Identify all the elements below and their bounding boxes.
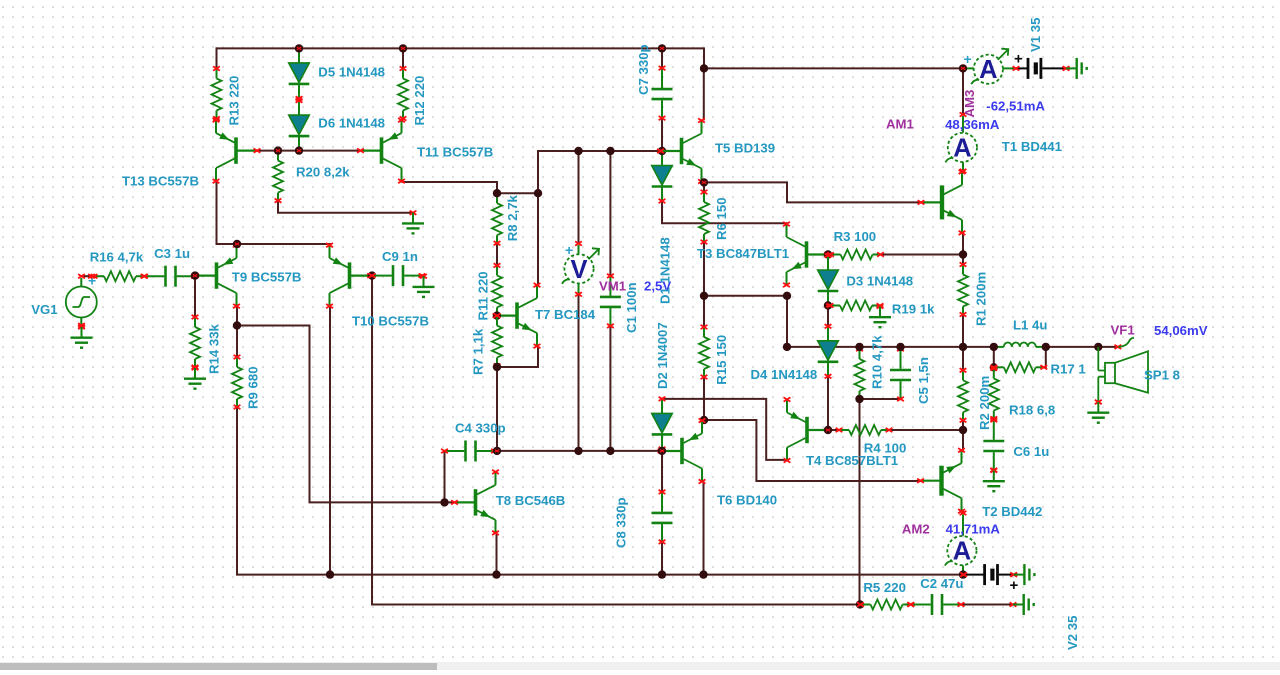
wire T6 collector down xyxy=(703,482,705,575)
wire R9 bottom to -rail bus xyxy=(237,407,963,575)
resistor R8 xyxy=(492,191,502,245)
label C5 xyxy=(916,357,931,404)
junction R5 node xyxy=(856,600,864,608)
svg-text:C3 1u: C3 1u xyxy=(154,246,190,261)
label R1 xyxy=(974,272,989,326)
wire C7 top lead xyxy=(661,48,663,68)
wire C1 bottom to C4 bus xyxy=(609,326,611,451)
label C9 xyxy=(382,249,418,264)
svg-text:-62,51mA: -62,51mA xyxy=(986,99,1045,114)
svg-text:R9 680: R9 680 xyxy=(246,366,261,409)
junction top bus R12 xyxy=(399,44,407,52)
label VF1 xyxy=(1111,322,1135,337)
capacitor C7 xyxy=(652,66,673,120)
junction D2 bus450 xyxy=(658,447,666,455)
junction bus450 VM1col xyxy=(574,447,582,455)
junction T3 base xyxy=(824,250,832,258)
resistor R15 xyxy=(699,325,709,379)
battery V1 xyxy=(1013,58,1070,79)
label R16 xyxy=(90,250,144,265)
junction node296 right xyxy=(783,292,791,300)
wire output to speaker xyxy=(1046,346,1118,348)
label D6 xyxy=(318,115,385,130)
plus sign VM1 xyxy=(565,242,573,258)
svg-text:T3 BC847BLT1: T3 BC847BLT1 xyxy=(697,246,789,261)
wire C3 junction down to R14 xyxy=(194,276,196,317)
junction C4 T8 base xyxy=(440,498,448,506)
wire C8 bottom lead xyxy=(661,543,663,574)
junction R17 left xyxy=(990,363,998,371)
label D3 xyxy=(846,273,913,288)
junction output R1 xyxy=(959,343,967,351)
label R19 xyxy=(892,302,935,317)
label T11 xyxy=(417,145,493,160)
label C3 xyxy=(154,246,190,261)
wire T7 column upper xyxy=(537,151,539,285)
label R4 xyxy=(864,441,907,456)
wire node296 to R15 xyxy=(703,296,705,327)
label R11 xyxy=(476,271,491,320)
svg-text:+: + xyxy=(565,242,573,258)
wire R13 top lead xyxy=(216,48,218,68)
wire C8 top lead xyxy=(661,451,663,492)
junction T3-emitter output bus xyxy=(783,343,791,351)
ammeter AM1 xyxy=(945,112,977,173)
wire D4 to T4 base node xyxy=(827,376,829,430)
wire mid bus to T5 base xyxy=(538,150,662,152)
wire top supply bus xyxy=(217,47,663,49)
wire T5 emitter to T1 base xyxy=(704,182,921,202)
svg-text:R14 33k: R14 33k xyxy=(207,323,222,374)
svg-text:+: + xyxy=(1014,51,1023,68)
svg-text:C5 1,5n: C5 1,5n xyxy=(916,357,931,404)
capacitor C4 xyxy=(441,441,498,462)
label R13 xyxy=(227,76,242,126)
label R12 xyxy=(412,76,427,126)
junction bus574 C8 xyxy=(658,570,666,578)
label R10 xyxy=(870,335,885,389)
svg-text:D4 1N4148: D4 1N4148 xyxy=(751,367,818,382)
svg-text:+: + xyxy=(964,51,972,67)
junction bus574 T6 xyxy=(699,570,707,578)
junction R8 top xyxy=(493,189,501,197)
svg-text:T1 BD441: T1 BD441 xyxy=(1002,139,1062,154)
svg-text:C7 330p: C7 330p xyxy=(636,44,651,95)
label R6 xyxy=(714,197,729,240)
resistor R19 xyxy=(827,301,884,311)
resistor R16 xyxy=(91,271,148,281)
junction T5 base xyxy=(658,147,666,155)
svg-text:AM1: AM1 xyxy=(886,117,914,132)
resistor R6 xyxy=(699,190,709,244)
resistor R14 xyxy=(190,315,200,369)
label R8 xyxy=(505,194,520,241)
capacitor C2 xyxy=(908,594,965,615)
label L1 xyxy=(1013,318,1047,333)
wire T10 collector down xyxy=(329,305,331,574)
wire R2 bottom to R4 node xyxy=(962,420,964,450)
svg-text:C2 47u: C2 47u xyxy=(920,576,963,591)
label T13 xyxy=(122,174,199,189)
svg-text:V1 35: V1 35 xyxy=(1028,18,1043,52)
wire T1 emitter to node xyxy=(962,233,964,264)
wire T3 emitter column down xyxy=(786,296,788,347)
svg-text:R16 4,7k: R16 4,7k xyxy=(90,250,144,265)
wire D1 cathode to T3 collector xyxy=(662,202,787,223)
voltage pin VF1 xyxy=(1115,338,1135,349)
label VM1 xyxy=(599,279,626,294)
label R18 xyxy=(1009,402,1055,417)
capacitor C3 xyxy=(141,266,198,287)
label AM2 xyxy=(902,521,930,536)
junction T9 emitter bus xyxy=(233,240,241,248)
wire T3 base node to D3 xyxy=(827,255,829,256)
svg-text:C1 100n: C1 100n xyxy=(624,282,639,333)
label R7 xyxy=(471,328,486,375)
wire T11 collector to R8 node xyxy=(403,182,498,193)
resistor R3 xyxy=(827,250,884,260)
junction T10 base xyxy=(368,271,376,279)
wire C1 top lead xyxy=(609,151,611,276)
capacitor C6 xyxy=(983,418,1004,472)
resistor R9 xyxy=(232,355,242,409)
wire R15 bottom to T6 node xyxy=(703,377,705,420)
plus sign VG1 xyxy=(88,273,96,289)
svg-text:T2 BD442: T2 BD442 xyxy=(982,504,1042,519)
label VF1 value xyxy=(1154,323,1208,338)
svg-text:L1 4u: L1 4u xyxy=(1013,318,1047,333)
svg-text:T7 BC184: T7 BC184 xyxy=(535,307,596,322)
junction T9 base C3 xyxy=(191,271,199,279)
svg-text:VM1: VM1 xyxy=(599,279,626,294)
diode D3 xyxy=(818,253,839,307)
horizontal scrollbar thumb xyxy=(0,663,437,670)
svg-text:VF1: VF1 xyxy=(1111,322,1135,337)
ground V1 xyxy=(1063,58,1087,79)
junction R7 bottom xyxy=(493,363,501,371)
wire T4 base lead xyxy=(828,429,839,431)
svg-text:R2 200m: R2 200m xyxy=(977,376,992,430)
transistor T3 xyxy=(783,222,831,287)
diode D4 xyxy=(818,324,839,378)
ground for R19 xyxy=(869,304,891,327)
wire node to T8 base column xyxy=(237,326,455,503)
ground for VG1 xyxy=(71,325,93,348)
svg-text:41,71mA: 41,71mA xyxy=(946,521,1001,536)
label AM1 xyxy=(886,117,914,132)
label AM3 xyxy=(962,90,977,118)
wire R10 node to C5 xyxy=(860,398,901,400)
wire T7 emitter to R7 node xyxy=(497,346,538,367)
transistor T5 xyxy=(657,118,705,183)
ground for R20 xyxy=(402,211,424,234)
wire R6 top lead xyxy=(703,182,705,192)
svg-text:T10 BC557B: T10 BC557B xyxy=(352,314,429,329)
transistor T4 xyxy=(784,397,832,462)
svg-text:R7 1,1k: R7 1,1k xyxy=(471,328,486,375)
diode D2 xyxy=(652,397,673,451)
label T5 xyxy=(715,140,775,155)
junction base bus D6 xyxy=(295,146,303,154)
ground C2 line xyxy=(1010,594,1034,615)
plus sign AM3 xyxy=(964,51,972,67)
transistor T1 xyxy=(918,170,966,235)
label SP1 xyxy=(1144,368,1180,383)
horizontal scrollbar track xyxy=(0,662,1280,670)
junction AM3 node xyxy=(959,64,967,72)
wire C4 left lead down xyxy=(444,451,446,502)
label C2 xyxy=(920,576,963,591)
voltage generator VG1 xyxy=(66,274,97,327)
junction AM2 V2 xyxy=(959,570,967,578)
svg-text:D2 1N4007: D2 1N4007 xyxy=(655,322,670,389)
label D2 xyxy=(655,322,670,389)
svg-text:T13 BC557B: T13 BC557B xyxy=(122,174,199,189)
wire node R8 to T7 column xyxy=(497,192,538,194)
label VG1 xyxy=(31,302,57,317)
wire T13 base to R20/D6 xyxy=(257,150,361,152)
wire R10 node down to R5 node xyxy=(859,399,861,605)
plus sign V2 xyxy=(1010,577,1019,594)
label T10 xyxy=(352,314,429,329)
svg-text:R3 100: R3 100 xyxy=(834,229,877,244)
resistor R18 xyxy=(989,366,999,420)
label D1 xyxy=(658,237,673,304)
wire R3 to T1 emitter node xyxy=(881,254,964,256)
wire C2 to ground lead xyxy=(964,604,1014,606)
junction R10 bottom xyxy=(855,395,863,403)
svg-text:54,06mV: 54,06mV xyxy=(1154,323,1208,338)
svg-text:D1 1N4148: D1 1N4148 xyxy=(658,237,673,304)
junction bus450 C1col xyxy=(606,447,614,455)
wire node296 bus xyxy=(704,295,787,297)
svg-text:R15 150: R15 150 xyxy=(714,335,729,385)
wire R1 bottom to output node xyxy=(962,315,964,347)
junction speaker xyxy=(1094,343,1102,351)
label V2 xyxy=(1065,616,1080,650)
junction T5 emitter xyxy=(700,178,708,186)
label C8 xyxy=(614,497,629,548)
wire C4 bus xyxy=(497,450,662,452)
label T7 xyxy=(535,307,596,322)
svg-text:VG1: VG1 xyxy=(31,302,57,317)
capacitor C9 xyxy=(369,265,426,286)
label D4 xyxy=(751,367,818,382)
capacitor C1 xyxy=(600,274,621,328)
wire R12 top lead xyxy=(402,48,404,68)
svg-text:C9 1n: C9 1n xyxy=(382,249,418,264)
wire D2 to T4 collector xyxy=(662,399,787,460)
wire T10 base feedback line xyxy=(372,276,860,605)
transistor T6 xyxy=(658,418,706,483)
label T1 xyxy=(1002,139,1062,154)
junction L1 left xyxy=(990,343,998,351)
ground C6 xyxy=(983,468,1005,491)
junction top bus C7 xyxy=(658,44,666,52)
svg-text:D6 1N4148: D6 1N4148 xyxy=(318,115,385,130)
wire bus corner to +rail xyxy=(662,48,704,68)
svg-text:R20 8,2k: R20 8,2k xyxy=(296,164,350,179)
svg-text:R5 220: R5 220 xyxy=(863,580,906,595)
transistor T8 xyxy=(451,470,499,535)
svg-text:V: V xyxy=(570,256,587,284)
svg-text:T6 BD140: T6 BD140 xyxy=(717,493,777,508)
label T9 xyxy=(232,269,302,284)
capacitor C8 xyxy=(652,490,673,544)
resistor R2 xyxy=(958,368,968,422)
resistor R10 xyxy=(855,347,865,401)
junction bus574 T10col xyxy=(326,570,334,578)
transistor T11 xyxy=(357,118,405,183)
wire D3 to D4 xyxy=(827,306,829,327)
wire R2 top lead xyxy=(962,347,964,370)
ground for R14 xyxy=(184,366,206,389)
svg-text:C8 330p: C8 330p xyxy=(614,497,629,548)
wire L1 node to R17/R18 node xyxy=(993,347,995,367)
label AM3 value xyxy=(986,99,1045,114)
ammeter AM3 xyxy=(965,49,1015,84)
wire T6 node to T2 base xyxy=(704,420,921,481)
label R15 xyxy=(714,335,729,385)
junction R10 top xyxy=(855,343,863,351)
ammeter AM2 xyxy=(945,511,977,573)
svg-text:R1 200m: R1 200m xyxy=(974,272,989,326)
label T4 xyxy=(806,453,898,468)
wire R6 bottom to node xyxy=(703,242,705,296)
label R17 xyxy=(1051,362,1086,377)
wire R5 bus from feedback xyxy=(859,604,862,606)
label D5 xyxy=(318,65,385,80)
svg-text:R13 220: R13 220 xyxy=(227,76,242,126)
wire T9 collector to node xyxy=(236,305,238,325)
svg-text:D3 1N4148: D3 1N4148 xyxy=(846,273,913,288)
junction T9 collector node xyxy=(233,321,241,329)
transistor T10 xyxy=(326,243,374,308)
svg-text:T8 BC546B: T8 BC546B xyxy=(496,493,566,508)
svg-text:C4 330p: C4 330p xyxy=(455,421,506,436)
junction top bus D5 xyxy=(295,44,303,52)
transistor T2 xyxy=(917,448,965,513)
label R14 xyxy=(207,323,222,374)
transistor T13 xyxy=(213,118,261,183)
svg-text:T5 BD139: T5 BD139 xyxy=(715,140,775,155)
junction C5 top xyxy=(896,343,904,351)
wire VM1 top lead xyxy=(578,151,580,244)
junction base bus R20 xyxy=(274,146,282,154)
wire C7 to T5 base node xyxy=(661,119,663,151)
label C6 xyxy=(1013,444,1049,459)
junction bus151 C1 xyxy=(606,147,614,155)
svg-text:A: A xyxy=(953,538,971,566)
svg-text:R17 1: R17 1 xyxy=(1051,362,1086,377)
wire -rail bus right end xyxy=(962,574,964,576)
resistor R4 xyxy=(836,425,893,435)
svg-text:AM2: AM2 xyxy=(902,521,930,536)
label R3 xyxy=(834,229,877,244)
svg-text:D5 1N4148: D5 1N4148 xyxy=(318,65,385,80)
label R5 xyxy=(863,580,906,595)
label VM1 value xyxy=(644,279,671,294)
label AM1 value xyxy=(945,117,1000,132)
wire AM3 node down to AM1 xyxy=(962,68,964,114)
svg-text:R10 4,7k: R10 4,7k xyxy=(870,335,885,389)
inductor L1 xyxy=(990,342,1049,349)
junction mid bus left xyxy=(534,189,542,197)
junction C4 right xyxy=(493,447,501,455)
wire T2 collector to AM2 xyxy=(962,512,964,513)
label T8 xyxy=(496,493,566,508)
wire R20 bottom to ground xyxy=(278,201,412,213)
svg-text:48,36mA: 48,36mA xyxy=(945,117,1000,132)
junction T7 base xyxy=(493,311,501,319)
wire T8 emitter down xyxy=(496,534,498,575)
svg-text:R12 220: R12 220 xyxy=(412,76,427,126)
svg-text:R8 2,7k: R8 2,7k xyxy=(505,194,520,241)
label C1 xyxy=(624,282,639,333)
ground V2 xyxy=(1010,564,1034,585)
junction L1 right xyxy=(1042,343,1050,351)
junction bus574 T8 xyxy=(492,570,500,578)
svg-text:R4 100: R4 100 xyxy=(864,441,907,456)
label R2 xyxy=(977,376,992,430)
label T3 xyxy=(697,246,789,261)
label R20 xyxy=(296,164,350,179)
resistor R17 xyxy=(990,362,1047,372)
resistor R20 xyxy=(273,149,283,203)
svg-text:SP1 8: SP1 8 xyxy=(1144,368,1180,383)
plus sign V1 xyxy=(1014,51,1023,68)
label R9 xyxy=(246,366,261,409)
wire R17 right to output bus xyxy=(1045,347,1047,367)
svg-text:R11 220: R11 220 xyxy=(476,271,491,320)
svg-text:V2 35: V2 35 xyxy=(1065,616,1080,650)
label T2 xyxy=(982,504,1042,519)
capacitor C5 xyxy=(890,347,911,401)
ground for C9 xyxy=(413,274,435,297)
wire R9 top lead xyxy=(236,326,238,358)
resistor R11 xyxy=(492,263,502,317)
resistor R13 xyxy=(212,66,222,120)
diode D1 xyxy=(652,149,673,203)
speaker SP1 xyxy=(1095,347,1148,404)
wire output bus xyxy=(787,346,994,348)
svg-text:T11 BC557B: T11 BC557B xyxy=(417,145,493,160)
battery V2 xyxy=(960,564,1017,585)
junction T6 emitter node xyxy=(700,416,708,424)
junction +rail T5 xyxy=(700,64,708,72)
label T6 xyxy=(717,493,777,508)
junction T4 base R4 xyxy=(824,426,832,434)
voltmeter VM1 xyxy=(562,241,599,296)
svg-text:+: + xyxy=(1010,577,1019,594)
wire T13 collector down xyxy=(217,182,331,244)
svg-text:R18 6,8: R18 6,8 xyxy=(1009,402,1055,417)
wire VG1 to R16 xyxy=(82,275,95,277)
wire R7 node down xyxy=(496,367,498,451)
junction R2 R4 xyxy=(959,426,967,434)
resistor R1 xyxy=(958,262,968,316)
svg-text:AM3: AM3 xyxy=(962,90,977,118)
svg-text:R19 1k: R19 1k xyxy=(892,302,935,317)
junction T1 emitter xyxy=(959,250,967,258)
junction D3 bottom xyxy=(824,301,832,309)
resistor R12 xyxy=(398,66,408,120)
diode D6 xyxy=(289,99,310,153)
wire R8 to R11 xyxy=(496,243,498,265)
wire VM1 bottom to C4 bus xyxy=(578,294,580,451)
resistor R7 xyxy=(492,314,502,368)
wire +rail to AM3 xyxy=(704,67,963,69)
